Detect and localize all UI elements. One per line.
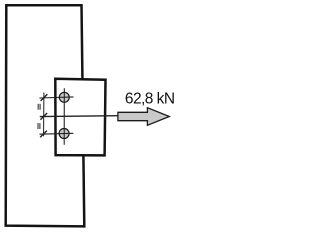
equal mark 1 — [38, 104, 40, 110]
bolt B1 — [59, 92, 69, 102]
plate — [55, 79, 105, 156]
extension line top bolt — [39, 97, 73, 98]
tick at bottom bolt — [40, 131, 47, 138]
dimension line — [43, 93, 45, 137]
force block arrow — [118, 108, 169, 126]
equal mark 2 — [38, 123, 40, 129]
svg-text:62,8 kN: 62,8 kN — [125, 91, 175, 108]
extension line bottom bolt — [40, 132, 74, 135]
column member — [6, 5, 85, 226]
force line — [40, 115, 118, 118]
bolt B2 — [59, 129, 69, 139]
tick at top bolt — [41, 94, 48, 101]
bolt centerline vertical — [63, 88, 65, 145]
tick at mid line — [40, 113, 47, 120]
